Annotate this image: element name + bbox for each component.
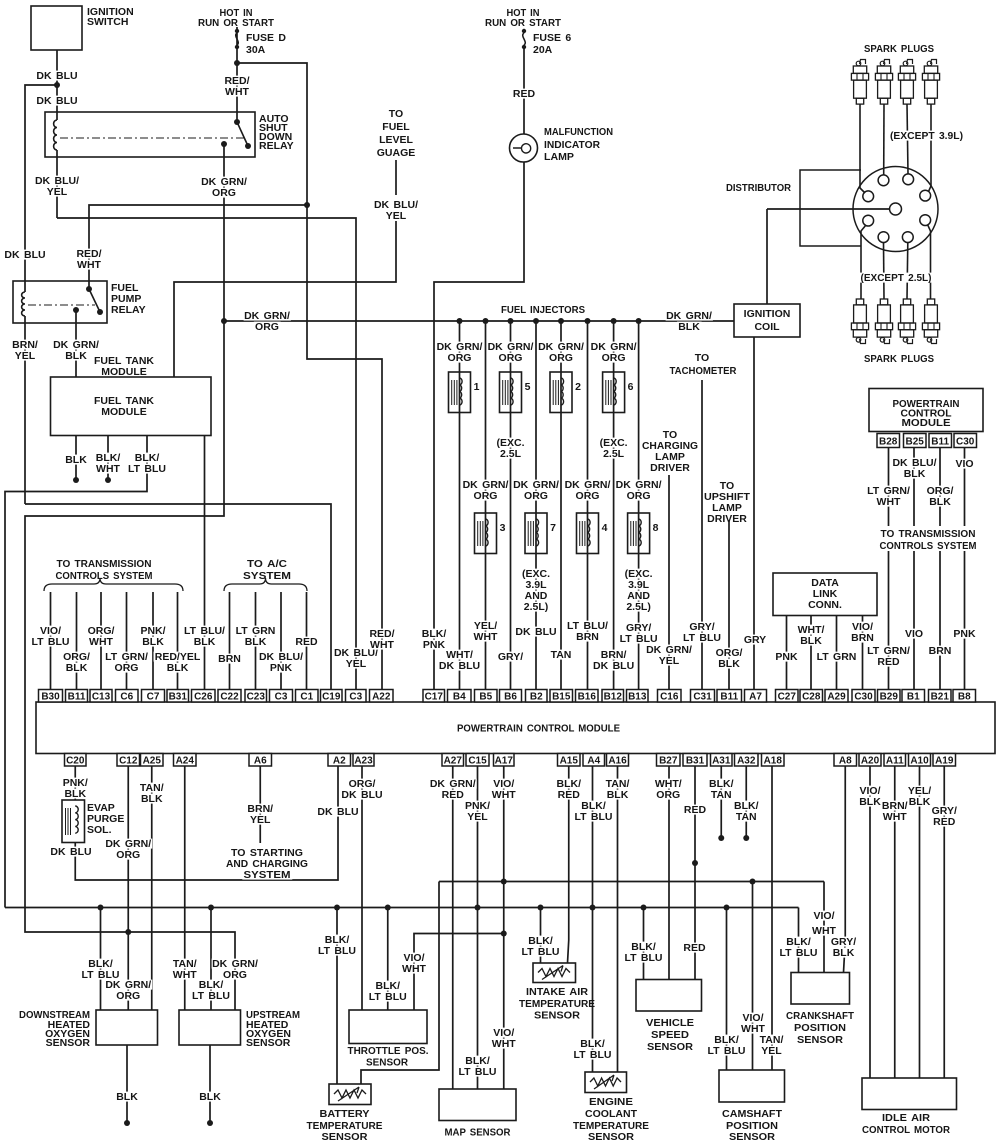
wire camshaft VIO/WHT drop: [752, 882, 754, 1071]
wire injector col to B16: [587, 321, 589, 690]
label EXC 2.5L left: [495, 438, 526, 448]
connector B27 bottom row: [657, 754, 681, 767]
label RED at B31: [683, 805, 708, 815]
connector C12 bottom row: [117, 754, 140, 767]
svg-text:A25: A25: [143, 756, 162, 767]
label YEL/BLK at A10: [907, 786, 933, 796]
connector B11 top row: [66, 690, 88, 703]
svg-text:BLK: BLK: [167, 662, 189, 674]
label RED at C1: [294, 637, 319, 647]
svg-text:RELAY: RELAY: [259, 140, 294, 152]
junction RED/WHT: [304, 202, 310, 208]
svg-text:ORG: ORG: [116, 849, 140, 861]
svg-text:LT BLU: LT BLU: [458, 1066, 496, 1078]
svg-text:MODULE: MODULE: [101, 406, 147, 418]
pin fuel pump switch: [86, 286, 92, 292]
label RED: [512, 89, 537, 99]
injector 7: [525, 513, 547, 554]
pin ASD blade: [245, 143, 251, 149]
svg-text:2.5L): 2.5L): [524, 601, 549, 613]
injector 8: [628, 513, 650, 554]
svg-text:BLK: BLK: [909, 796, 931, 808]
label RED/YEL BLK at B31: [154, 652, 203, 662]
terminal A31: [718, 835, 724, 841]
label DK BLU at B2: [515, 627, 558, 637]
connector A29 top row: [825, 690, 848, 703]
wire A20 to idle air control motor: [869, 766, 871, 1078]
wire A/C system to C22: [229, 592, 231, 690]
connector C31 top row: [691, 690, 715, 703]
distributor body: [853, 167, 938, 252]
label BRN/YEL at fuel pump relay: [11, 340, 40, 350]
spark plug 4: [927, 61, 932, 66]
label LT BLU/BRN at B16: [567, 621, 610, 631]
svg-text:CONN.: CONN.: [808, 599, 842, 611]
label DK GRN/ORG injector 5: [487, 342, 534, 352]
svg-text:DRIVER: DRIVER: [650, 462, 690, 474]
wire IAT BLK/LT BLU: [540, 908, 542, 964]
label VIO/ at crankshaft: [812, 911, 836, 921]
svg-text:SPARK PLUGS: SPARK PLUGS: [864, 43, 934, 55]
coil injector 6: [605, 380, 607, 405]
svg-text:A2: A2: [333, 756, 346, 767]
svg-text:BLK: BLK: [65, 350, 87, 362]
wire VIO/WHT rail: [439, 881, 824, 883]
connector C30 top row: [852, 690, 875, 703]
wire data link conn to A29: [836, 616, 838, 691]
distributor cap terminals: [878, 175, 889, 186]
map sensor: [439, 1089, 516, 1121]
svg-text:BLK: BLK: [194, 636, 216, 648]
svg-text:B5: B5: [479, 692, 492, 703]
svg-text:WHT: WHT: [877, 496, 901, 508]
svg-text:A20: A20: [861, 756, 880, 767]
label ORG/BLK upper right: [925, 486, 955, 496]
label BLK/RED at A15: [555, 779, 583, 789]
connector C15 bottom row: [466, 754, 489, 767]
connector B4 top row: [448, 690, 472, 703]
svg-text:VIO: VIO: [955, 458, 973, 470]
svg-text:CONTROLS SYSTEM: CONTROLS SYSTEM: [880, 540, 977, 552]
label DK BLU upper: [36, 71, 79, 81]
coil injector 4: [579, 521, 581, 546]
label GRY/LT BLU at C31: [688, 622, 716, 632]
wire DK BLU/YEL fuel level to fuel tank module: [174, 221, 396, 377]
injector 1: [449, 372, 471, 413]
label VIO/WHT at TPS: [402, 953, 426, 963]
label GRY/BLK at crankshaft: [830, 937, 858, 947]
connector C1 top row: [296, 690, 319, 703]
dashed link fuel pump relay: [28, 304, 95, 306]
wire distributor to spark plug 7: [906, 243, 909, 300]
svg-text:RED: RED: [933, 816, 956, 828]
svg-text:GUAGE: GUAGE: [377, 147, 416, 159]
label LT GRN/WHT: [867, 486, 911, 496]
label LT GRN at A29: [816, 652, 857, 662]
label TAN/WHT upstream O2: [172, 959, 199, 969]
connector C13 top row: [90, 690, 112, 703]
junction C12 heater: [125, 929, 131, 935]
junction injector 5: [508, 318, 514, 324]
connector C27 top row: [776, 690, 799, 703]
svg-text:VEHICLE: VEHICLE: [646, 1017, 694, 1029]
injector 4: [577, 513, 599, 554]
svg-text:C20: C20: [66, 756, 85, 767]
wire MIL lamp to C17: [434, 162, 524, 690]
svg-text:BLK: BLK: [859, 796, 881, 808]
svg-text:A24: A24: [176, 756, 195, 767]
spark plug 6: [880, 299, 887, 305]
svg-text:B21: B21: [931, 692, 950, 703]
junction camshaft VIO/WHT: [750, 879, 756, 885]
coil injector 7: [527, 521, 529, 546]
svg-text:SENSOR: SENSOR: [588, 1131, 634, 1141]
label RED/WHT at fuel pump: [75, 249, 103, 259]
connector B16 top row: [576, 690, 599, 703]
svg-text:BLK: BLK: [245, 636, 267, 648]
injector 3: [475, 513, 497, 554]
svg-text:IDLE AIR: IDLE AIR: [882, 1112, 930, 1124]
svg-text:ORG: ORG: [627, 490, 651, 502]
label ORG/BLK at B11: [714, 648, 744, 658]
svg-text:C30: C30: [956, 437, 975, 448]
connector B15 top row: [550, 690, 573, 703]
svg-text:LT BLU: LT BLU: [192, 990, 230, 1002]
svg-text:A18: A18: [764, 756, 783, 767]
svg-text:BRN: BRN: [929, 645, 952, 657]
wire crankshaft VIO/WHT drop: [823, 882, 825, 973]
wire data link conn to C28: [810, 616, 812, 691]
coil injector 1: [451, 380, 453, 405]
svg-text:B6: B6: [504, 692, 517, 703]
wire A24 TAN/WHT to upstream O2: [184, 766, 186, 1010]
wire injector col to B13: [638, 321, 640, 690]
junction A4 at bus: [590, 905, 596, 911]
svg-text:A31: A31: [712, 756, 731, 767]
connector A23 bottom row: [353, 754, 374, 767]
label BATTERY TEMPERATURE SENSOR: [318, 1109, 371, 1119]
connector C22 top row: [218, 690, 241, 703]
svg-text:B13: B13: [628, 692, 647, 703]
data link connector: [773, 573, 877, 616]
svg-text:BLK: BLK: [142, 636, 164, 648]
svg-text:BLK: BLK: [678, 321, 700, 333]
wire fuel tank BLK/WHT stub: [107, 436, 109, 481]
svg-text:SWITCH: SWITCH: [87, 16, 128, 28]
wire A11 to idle air control motor: [894, 766, 896, 1078]
svg-text:30A: 30A: [246, 44, 266, 56]
svg-text:SENSOR: SENSOR: [46, 1037, 91, 1049]
wire A6 BRN/YEL stub: [259, 766, 261, 843]
svg-text:RED: RED: [877, 656, 900, 668]
svg-text:YEL: YEL: [386, 210, 407, 222]
svg-text:BLK: BLK: [65, 454, 87, 466]
connector B12 top row: [602, 690, 624, 703]
svg-text:B27: B27: [659, 756, 678, 767]
label PNK/BLK at C20: [62, 778, 90, 788]
wire fuel tank BLK/LT BLU to ground bus: [5, 436, 147, 908]
label EXCEPT 3.9L: [889, 131, 965, 141]
svg-text:B29: B29: [880, 692, 899, 703]
wire A8 GRY/BLK to crankshaft sensor: [844, 766, 846, 973]
wire B31 RED to VSS: [694, 766, 696, 980]
terminal A32: [743, 835, 749, 841]
svg-text:WHT: WHT: [89, 636, 113, 648]
dashed link ASD relay: [60, 137, 247, 139]
junction injector 8: [636, 318, 642, 324]
svg-text:C30: C30: [854, 692, 873, 703]
svg-text:3: 3: [500, 522, 506, 534]
wire battery temp link: [361, 882, 439, 1085]
svg-text:C26: C26: [194, 692, 213, 703]
svg-text:YEL: YEL: [15, 350, 36, 362]
label BLK/PNK at C17: [421, 629, 449, 639]
junction A17 at VIO/WHT rail: [501, 879, 507, 885]
spark plug 2: [880, 61, 885, 66]
label BRN/WHT at A11: [881, 801, 910, 811]
brace A/C system: [224, 578, 307, 591]
connector B31 bottom row: [683, 754, 707, 767]
svg-text:FUSE D: FUSE D: [246, 32, 286, 44]
svg-text:6: 6: [628, 381, 634, 393]
svg-text:C3: C3: [349, 692, 362, 703]
svg-text:GRY/: GRY/: [498, 651, 523, 663]
svg-text:A8: A8: [839, 756, 852, 767]
svg-text:BLK: BLK: [833, 947, 855, 959]
svg-text:TAN: TAN: [711, 789, 732, 801]
coil evap purge solenoid: [65, 808, 67, 835]
connector A8 bottom row: [834, 754, 857, 767]
svg-text:WHT: WHT: [173, 969, 197, 981]
svg-text:RED: RED: [558, 789, 581, 801]
svg-text:YEL: YEL: [47, 186, 68, 198]
connector B2 top row: [526, 690, 548, 703]
svg-text:DRIVER: DRIVER: [707, 513, 747, 525]
crankshaft position sensor: [791, 973, 850, 1005]
svg-text:DK BLU: DK BLU: [317, 806, 358, 818]
svg-text:C6: C6: [120, 692, 133, 703]
coil injector 8: [630, 521, 632, 546]
label DK GRN/ORG injector 4: [564, 480, 611, 490]
svg-text:SENSOR: SENSOR: [534, 1010, 580, 1022]
svg-text:C16: C16: [660, 692, 679, 703]
svg-text:A22: A22: [372, 692, 391, 703]
connector C3 top row: [346, 690, 367, 703]
svg-text:THROTTLE POS.: THROTTLE POS.: [348, 1045, 429, 1057]
svg-text:RED: RED: [295, 636, 318, 648]
svg-text:BLK: BLK: [199, 1091, 221, 1103]
svg-text:ORG: ORG: [223, 969, 247, 981]
svg-text:SOL.: SOL.: [87, 824, 112, 836]
svg-text:2: 2: [575, 381, 581, 393]
svg-text:DK BLU: DK BLU: [341, 789, 382, 801]
fuel tank module: [51, 377, 212, 436]
label VIO at B1: [904, 629, 925, 639]
svg-text:POSITION: POSITION: [794, 1022, 846, 1034]
svg-text:SPARK PLUGS: SPARK PLUGS: [864, 353, 934, 365]
connector B29 top row: [878, 690, 901, 703]
svg-text:SENSOR: SENSOR: [366, 1057, 408, 1069]
svg-text:LT GRN: LT GRN: [817, 651, 857, 663]
junction fuse D: [234, 60, 240, 66]
label VIO/BRN at C30: [851, 622, 875, 632]
label BLK downstream: [115, 1092, 140, 1102]
wire DK BLU branch to fuel pump relay coil: [25, 85, 57, 292]
wire fuel pump relay coil to BRN/YEL: [24, 316, 26, 504]
wire downstream O2 BLK/LT BLU: [100, 908, 102, 1011]
svg-text:BLK: BLK: [800, 635, 822, 647]
wire TPS BLK/LT BLU: [387, 908, 389, 1011]
wire injector col to B12: [613, 321, 615, 690]
svg-text:A4: A4: [587, 756, 600, 767]
wire sensor ground bus: [5, 907, 799, 909]
svg-text:PNK: PNK: [270, 662, 293, 674]
svg-text:MAP SENSOR: MAP SENSOR: [445, 1127, 511, 1139]
wire fuel tank module to C26: [204, 436, 206, 691]
svg-text:YEL: YEL: [250, 814, 271, 826]
junction injector 1: [457, 318, 463, 324]
svg-text:8: 8: [653, 522, 659, 534]
svg-text:WHT: WHT: [492, 789, 516, 801]
wire fuse 6 to lamp: [523, 49, 525, 134]
svg-text:LT BLU: LT BLU: [521, 946, 559, 958]
wire fuel pump contact to fuel tank module: [75, 310, 77, 377]
label LT GRN/RED: [867, 646, 911, 656]
label ORG/BLK at B11 left: [62, 652, 92, 662]
junction injector 7: [533, 318, 539, 324]
connector C28 top row: [800, 690, 823, 703]
label BLK/TAN at A31: [708, 779, 736, 789]
svg-text:LT BLU: LT BLU: [574, 811, 612, 823]
wire DK BLU/YEL to C3: [57, 218, 356, 690]
wire RED/WHT to fuel pump switch: [89, 205, 307, 289]
wire A4 BLK/LT BLU to ECT: [592, 766, 594, 1072]
label BLK/LT BLU upstream O2: [198, 980, 226, 990]
wire spark plug 4 to distributor: [929, 104, 932, 192]
label DK GRN/ORG at C12: [105, 839, 152, 849]
svg-text:LT BLU: LT BLU: [683, 632, 721, 644]
svg-text:A19: A19: [935, 756, 954, 767]
connector C26 top row: [192, 690, 216, 703]
label LT GRN BLK at C23: [235, 626, 276, 636]
svg-text:C7: C7: [147, 692, 160, 703]
wire transmission controls to B31: [177, 592, 179, 690]
pin fuel pump contact: [73, 307, 79, 313]
svg-text:C12: C12: [119, 756, 138, 767]
wire RED/WHT jog to A22: [307, 205, 382, 690]
wire to charging lamp driver to C16: [668, 475, 670, 690]
fuse D 30A: [235, 29, 239, 33]
connector B25: [904, 434, 927, 448]
svg-text:ORG: ORG: [116, 990, 140, 1002]
label DK GRN/BLK at ignition coil: [666, 311, 713, 321]
connector B11 upper: [929, 434, 952, 448]
junction VSS ground: [641, 905, 647, 911]
label BRN at C22: [217, 654, 243, 664]
wire A/C system to C1: [306, 592, 308, 690]
wire C15 PNK/YEL to MAP: [477, 766, 479, 1089]
connector B1 top row: [902, 690, 925, 703]
label DK GRN/ORG downstream O2: [105, 980, 152, 990]
svg-text:RED: RED: [513, 88, 536, 100]
label BLK/LT BLU at A4: [580, 801, 608, 811]
svg-text:B15: B15: [552, 692, 571, 703]
svg-text:ORG: ORG: [448, 352, 472, 364]
resistor battery temperature sensor: [334, 1087, 366, 1101]
svg-text:VIO: VIO: [905, 628, 923, 640]
svg-text:B31: B31: [169, 692, 188, 703]
connector A7 top row: [745, 690, 767, 703]
wire A/C system to C3: [280, 592, 282, 690]
svg-text:B11: B11: [931, 437, 949, 448]
connector A6 bottom row: [249, 754, 272, 767]
engine coolant temperature sensor: [585, 1072, 627, 1093]
connector A32 bottom row: [735, 754, 759, 767]
junction DK GRN/ORG bus at ASD: [221, 318, 227, 324]
idle air control motor: [862, 1078, 957, 1110]
junction battery temp ground: [334, 905, 340, 911]
wire camshaft BLK/LT BLU drop: [726, 908, 728, 1071]
svg-text:CONTROLS SYSTEM: CONTROLS SYSTEM: [56, 570, 153, 582]
wire VIO/WHT branch to TPS: [414, 934, 504, 1011]
svg-text:BRN: BRN: [576, 631, 599, 643]
svg-text:COOLANT: COOLANT: [585, 1108, 638, 1120]
wire A15 BLK/RED to IAT: [568, 766, 569, 963]
wire distributor to spark plug 6: [883, 243, 886, 300]
svg-text:WHT: WHT: [77, 259, 101, 271]
label BLK/LT BLU at VSS: [630, 942, 658, 952]
terminal downstream O2 ground: [124, 1120, 130, 1126]
svg-text:LEVEL: LEVEL: [379, 134, 413, 146]
label DK BLU lower: [36, 96, 79, 106]
label DK GRN/RED at A27: [429, 779, 476, 789]
label GRY at A7: [743, 635, 768, 645]
svg-text:7: 7: [550, 522, 556, 534]
wire VSS BLK/LT BLU: [643, 908, 645, 980]
label EXC 3.9L AND 2.5L left: [521, 569, 552, 579]
wire upstream O2 BLK/LT BLU: [210, 908, 212, 1011]
svg-text:1: 1: [474, 381, 480, 393]
junction injector 4: [585, 318, 591, 324]
label PNK at B8: [952, 629, 977, 639]
svg-text:YEL: YEL: [761, 1045, 782, 1057]
svg-text:TO TRANSMISSION: TO TRANSMISSION: [881, 528, 976, 540]
connector A4 bottom row: [583, 754, 605, 767]
label DK GRN/ORG injector 2: [538, 342, 585, 352]
svg-text:C19: C19: [322, 692, 341, 703]
label BRN/YEL at A6: [246, 804, 275, 814]
svg-text:A6: A6: [254, 756, 267, 767]
svg-text:YEL: YEL: [659, 655, 680, 667]
connector A20 bottom row: [859, 754, 881, 767]
svg-text:BLK: BLK: [904, 468, 926, 480]
svg-text:2.5L: 2.5L: [603, 448, 625, 460]
svg-text:BLK: BLK: [607, 789, 629, 801]
label EXC 3.9L AND 2.5L right: [623, 569, 654, 579]
svg-text:WHT: WHT: [492, 1038, 516, 1050]
svg-text:INTAKE AIR: INTAKE AIR: [526, 986, 588, 998]
svg-text:ORG: ORG: [524, 490, 548, 502]
svg-text:SENSOR: SENSOR: [729, 1131, 775, 1141]
svg-text:ORG: ORG: [115, 662, 139, 674]
junction C15 at bus: [475, 905, 481, 911]
connector B13 top row: [627, 690, 649, 703]
junction injector 6: [611, 318, 617, 324]
label TAN/BLK at A25: [139, 783, 166, 793]
svg-text:DK BLU: DK BLU: [36, 95, 77, 107]
svg-text:A17: A17: [495, 756, 514, 767]
svg-text:ORG: ORG: [656, 789, 680, 801]
